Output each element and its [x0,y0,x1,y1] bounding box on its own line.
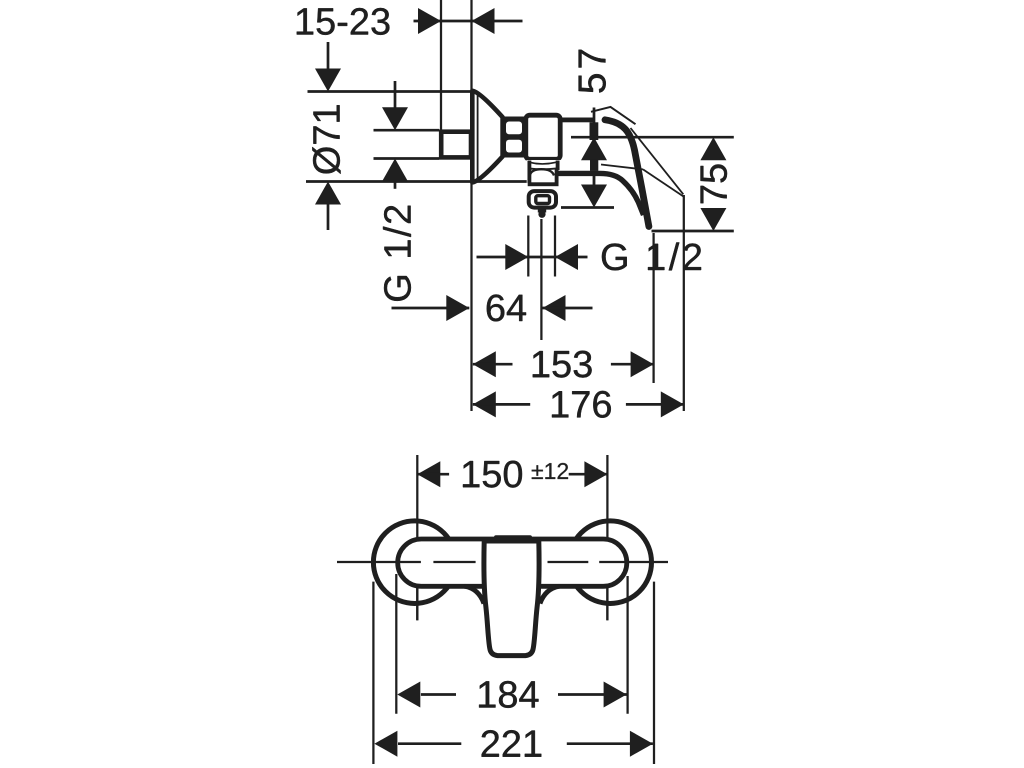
dim 64 right line [543,307,593,310]
dim 150 right stub [569,473,608,476]
outlet ext line right [554,216,556,277]
horizontal centerline seg4 [599,561,668,563]
dimension 15-23 label [297,8,390,35]
spout tip outer [529,191,556,208]
dimension 15-23 arrow right [418,8,441,34]
dim 153 arrow right [631,351,654,377]
outlet band [528,182,559,186]
supply pipe G1/2 label [383,206,411,301]
outlet G1/2 arrow right [505,244,528,270]
dim 150 left extension / crosshair [416,455,418,620]
right body-handle fillet [540,586,560,603]
dim 75 arrow up [700,137,726,160]
dim 150 arrow right [584,461,607,487]
supply pipe stub [441,132,471,158]
left escutcheon circle [373,521,456,604]
dim 153 left line [473,363,513,366]
outlet upper left edge [527,161,531,171]
dim 221 arrow right [630,731,653,757]
dimension 15-23 line [414,20,523,23]
dim 57 thin stem [593,176,596,187]
dim 176 label [552,391,611,418]
spout tip stub [538,209,546,213]
dim 57 reference top line [571,136,734,139]
dim 184 right extension [626,576,628,714]
horizontal centerline seg1 [337,561,421,563]
dim 57 upper stem [593,108,596,138]
dim 75 arrow down [700,208,726,231]
pipe dim lower stem [394,181,397,189]
dim 64 left line [392,307,470,310]
outlet ext line left [527,216,529,277]
dim 184 arrow left [397,682,420,708]
dim 153 right line [611,363,654,366]
valve body (side view) [526,115,560,159]
wall line right lower segment [470,182,472,411]
left crosshair lower part [416,586,418,620]
aerator dome arc [530,169,554,175]
horizontal centerline seg2 [433,561,475,563]
dim 64 arrow left [543,295,566,321]
dim 57 reference bottom line [561,206,614,209]
escutcheon bell (side view) [472,91,502,183]
dim 176 left line [473,403,530,406]
valve neck window lower [506,140,522,153]
left body-handle fillet [465,586,484,603]
dimension diam71 label [312,105,340,174]
handle top joint blob [494,535,532,543]
dim 75 label [701,164,728,203]
handle lever blade [605,120,649,227]
handle (front view) [484,541,539,656]
horizontal centerline seg3 [548,561,589,563]
dim 221 left extension [372,582,374,764]
spout tip inner square [536,196,550,204]
handle top thin outline [591,107,636,124]
supply pipe dim top line [374,129,440,132]
dim 57 label [579,50,606,93]
supply pipe dim bottom line [374,157,440,160]
valve neck window upper [506,122,522,135]
dim 176 arrow left [473,391,496,417]
dim 75 bottom line [652,230,734,233]
diam71 top arrow [315,69,341,92]
escutcheon flange inner line [477,94,479,179]
dim 64 label [487,294,526,321]
outlet upper section fill [527,160,561,170]
dim 150 label [463,461,522,488]
dim 153 label [533,351,592,378]
dim 57 arrow down [581,185,607,208]
dim 184 left extension [395,574,397,714]
dimension diam71 top line [308,90,471,93]
pipe dim arrow down [382,107,408,130]
outlet collar line [529,167,557,170]
dim 150 right extension / crosshair [606,455,608,620]
outlet upper arc line [530,162,557,164]
dim 176 arrow right [661,391,684,417]
dim 184 arrow right [604,682,627,708]
dimension diam71 bottom line [306,180,527,183]
wall line left (15-23 left extent) [440,0,442,130]
pipe dim arrow up [382,159,408,182]
dim 150 left stub [417,473,449,476]
wall line right upper segment [470,0,472,91]
aerator left edge [527,170,531,184]
dim 153 arrow left [473,351,496,377]
dim 176 right line [626,403,684,406]
dim 150 arrow left [417,461,440,487]
aerator right edge [555,170,559,184]
dim 150 tolerance label [532,463,568,479]
extension line handle tip closed [652,233,654,383]
outlet G1/2 dim line [477,256,588,259]
handle open-position bottom line [601,165,643,170]
handle pivot column [590,122,599,140]
outlet upper right edge [556,161,560,171]
outlet G1/2 label [602,242,701,270]
dim 57 arrow up [581,137,607,160]
outlet G1/2 arrow left [555,244,578,270]
diam71 top arrow stem [327,42,330,70]
dim 184 label [479,681,538,708]
dim 64 arrow right [446,295,469,321]
pipe dim upper stem [394,81,397,108]
right escutcheon circle [569,521,652,604]
spout tip dot [538,211,545,218]
handle base bottom band [558,173,644,215]
handle open-position front edge [631,128,684,194]
handle open-position back edge [643,169,684,196]
dim 184 right line [558,693,627,696]
right crosshair lower part [606,586,608,620]
dimension 15-23 arrow left [472,8,495,34]
dim 57 thick shaft [590,160,598,171]
dim 221 left line [398,742,461,745]
dim 221 right line [567,742,653,745]
dim 221 right extension [653,582,655,764]
dim 184 left line [421,693,456,696]
diam71 bottom arrow stem [327,203,330,230]
diam71 bottom arrow [315,182,341,205]
handle base top band [560,118,594,123]
valve neck block [502,117,527,158]
dim 221 arrow left [374,731,397,757]
faucet bar body [398,539,627,586]
extension line handle tip open [683,195,685,411]
outlet center line [540,219,542,340]
dim 221 label [482,730,542,757]
